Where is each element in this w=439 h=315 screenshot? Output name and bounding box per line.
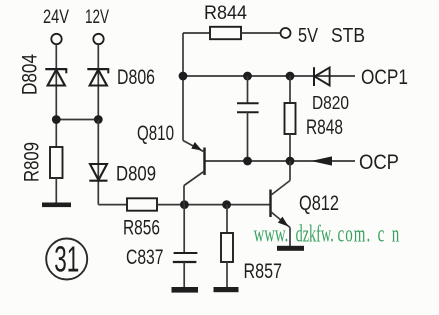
wire top rail: [183, 75, 355, 77]
net OCP1: [361, 66, 408, 89]
node junction left: [52, 115, 61, 124]
svg-text:R844: R844: [204, 3, 247, 24]
svg-text:dzkfw.: dzkfw.: [296, 221, 334, 247]
node R848 bottom: [286, 157, 295, 166]
svg-text:c: c: [378, 221, 385, 247]
ground (Q812): [277, 246, 304, 251]
wire base rail upper: [205, 160, 356, 162]
node page number 31: [46, 239, 87, 280]
svg-text:C837: C837: [126, 246, 164, 269]
terminal 5V STB: [281, 24, 366, 47]
node R857 tap: [222, 200, 231, 209]
ground (R809): [42, 203, 71, 208]
svg-text:R809: R809: [21, 142, 44, 182]
resistor R844: [183, 3, 280, 39]
wire 12V column upper: [97, 44, 99, 119]
svg-text:OCP1: OCP1: [361, 66, 408, 89]
svg-text:5V: 5V: [298, 24, 318, 47]
resistor R856: [123, 198, 160, 239]
diode D820: [312, 67, 349, 113]
node junction right: [94, 115, 103, 124]
ground (C837): [172, 287, 199, 293]
wire 24V column: [55, 44, 57, 147]
svg-text:OCP: OCP: [359, 151, 399, 174]
svg-text:D804: D804: [19, 54, 42, 95]
ground (R857): [214, 287, 239, 292]
svg-text:D820: D820: [312, 93, 349, 113]
svg-text:D809: D809: [116, 162, 156, 185]
watermark www.dzkfw.com.cn: [254, 221, 400, 247]
transistor Q812: [271, 161, 340, 246]
terminal 24V: [43, 7, 69, 44]
resistor R857: [221, 205, 282, 288]
wire cross link: [56, 119, 98, 121]
svg-text:Q810: Q810: [137, 122, 174, 145]
resistor R809: [21, 142, 63, 182]
net OCP arrow: [311, 151, 399, 174]
node cap top: [243, 72, 252, 81]
svg-text:com.: com.: [338, 221, 371, 247]
svg-text:STB: STB: [331, 24, 365, 47]
node collector Q810: [180, 200, 189, 209]
node cap bottom: [243, 157, 252, 166]
wire R809 to ground: [55, 178, 57, 204]
node R848 top: [286, 72, 295, 81]
diode D806: [87, 66, 155, 89]
svg-text:Q812: Q812: [299, 192, 339, 215]
diode D809: [89, 162, 156, 185]
wire left riser: [182, 33, 184, 141]
svg-text:www.: www.: [254, 221, 289, 247]
svg-text:R857: R857: [244, 260, 283, 283]
svg-text:D806: D806: [117, 66, 155, 89]
capacitor C (top): [237, 76, 259, 161]
terminal 12V: [85, 7, 109, 44]
svg-text:12V: 12V: [85, 7, 109, 28]
wire 12V column lower: [98, 120, 127, 205]
wire base rail lower: [157, 204, 271, 206]
diode D804: [19, 54, 68, 95]
svg-text:31: 31: [54, 239, 79, 280]
node emitter rail: [179, 72, 188, 81]
svg-text:R856: R856: [123, 217, 160, 240]
capacitor C837: [126, 205, 197, 288]
transistor Q810: [137, 122, 205, 205]
svg-text:R848: R848: [306, 116, 343, 139]
svg-text:24V: 24V: [43, 7, 69, 28]
resistor R848: [285, 76, 344, 161]
svg-text:n: n: [392, 221, 399, 247]
